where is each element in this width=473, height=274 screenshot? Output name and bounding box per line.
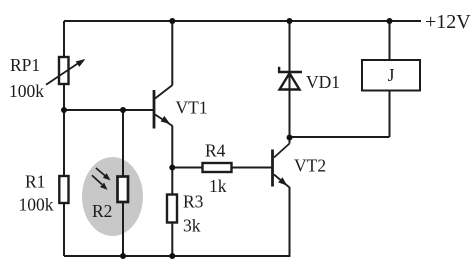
svg-text:VT2: VT2 <box>294 156 326 176</box>
svg-text:VD1: VD1 <box>306 72 340 92</box>
svg-text:R2: R2 <box>92 201 112 221</box>
svg-text:3k: 3k <box>183 216 201 236</box>
svg-text:1k: 1k <box>209 176 227 196</box>
svg-text:+12V: +12V <box>425 11 471 33</box>
svg-text:J: J <box>388 65 395 85</box>
svg-text:R3: R3 <box>183 192 204 212</box>
svg-text:100k: 100k <box>9 81 44 101</box>
svg-text:VT1: VT1 <box>176 98 208 118</box>
svg-text:RP1: RP1 <box>10 55 40 75</box>
svg-text:R1: R1 <box>25 172 45 192</box>
svg-text:100k: 100k <box>19 195 54 215</box>
svg-text:R4: R4 <box>205 141 226 161</box>
